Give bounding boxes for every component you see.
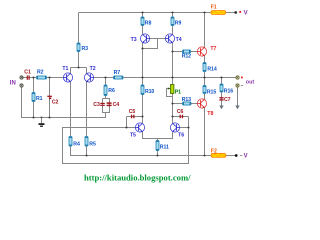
wire T3 T4 base link bbox=[150, 38, 166, 40]
out plus polarity mark bbox=[241, 77, 243, 79]
capacitor C5 bbox=[129, 109, 136, 118]
wire R8 leg bbox=[142, 13, 144, 35]
resistor R13 bbox=[182, 97, 191, 105]
wire ground rail bbox=[22, 87, 106, 118]
svg-text:F1: F1 bbox=[211, 5, 217, 11]
wire C6 branch bbox=[173, 116, 189, 118]
svg-text:R8: R8 bbox=[145, 20, 152, 26]
terminal out minus bbox=[236, 84, 239, 87]
wire C5 to T5 base bbox=[126, 117, 128, 128]
svg-text:C5: C5 bbox=[129, 109, 136, 115]
wire R11 leg bbox=[157, 139, 159, 156]
transistor T8 bbox=[197, 99, 213, 117]
wire T1 T2 collector tee bbox=[71, 67, 87, 69]
transistor T6 bbox=[170, 123, 184, 139]
wire T7 T8 output chain bbox=[204, 13, 206, 156]
resistor R8 bbox=[141, 17, 151, 26]
transistor T3 bbox=[131, 34, 150, 43]
svg-text:T4: T4 bbox=[176, 37, 182, 43]
wire input row bbox=[22, 77, 64, 79]
wire R16 C7 branch bbox=[221, 78, 223, 106]
terminal -V dot bbox=[235, 154, 238, 157]
wire T3 diode loop bbox=[143, 39, 158, 49]
svg-text:R16: R16 bbox=[224, 89, 233, 95]
transistor T5 bbox=[130, 123, 145, 139]
svg-text:R4: R4 bbox=[73, 142, 80, 148]
wire T4 collector chain bbox=[172, 43, 174, 123]
resistor R6 bbox=[104, 85, 115, 96]
resistor R3 bbox=[77, 43, 88, 52]
ground arrow below out minus bbox=[235, 106, 239, 110]
svg-text:R3: R3 bbox=[82, 46, 89, 52]
ground symbol bbox=[39, 118, 45, 127]
wire R13 to T8 base bbox=[173, 103, 198, 105]
wire T5 T6 emitter link bbox=[143, 132, 173, 139]
wire C3 C4 loop bbox=[103, 99, 110, 113]
svg-text:R11: R11 bbox=[160, 144, 169, 150]
resistor R4 bbox=[69, 137, 80, 148]
svg-text:P1: P1 bbox=[175, 89, 181, 95]
capacitor C1 bbox=[24, 70, 31, 80]
svg-text:F2: F2 bbox=[211, 148, 217, 154]
wire out minus ground leg bbox=[237, 87, 239, 106]
svg-text:R12: R12 bbox=[182, 54, 191, 60]
svg-text:C6: C6 bbox=[177, 109, 184, 115]
wire R5 leg bbox=[86, 146, 88, 156]
wire T4 to R12 to T7 base bbox=[173, 51, 198, 53]
wire C2 branch bbox=[49, 78, 51, 118]
wire R6 branch bbox=[105, 78, 107, 99]
transistor T7 bbox=[197, 46, 216, 56]
svg-text:R15: R15 bbox=[207, 90, 216, 96]
resistor R12 bbox=[182, 50, 191, 60]
fuse F2 bbox=[211, 148, 226, 157]
resistor R7 bbox=[114, 70, 124, 79]
svg-text:T3: T3 bbox=[131, 37, 137, 43]
wire R3 branch bbox=[78, 13, 80, 68]
svg-text:C7: C7 bbox=[224, 97, 231, 103]
svg-text:R9: R9 bbox=[175, 20, 182, 26]
svg-text:T7: T7 bbox=[210, 46, 216, 52]
capacitor C7 bbox=[219, 97, 230, 103]
capacitor C4 bbox=[107, 102, 120, 108]
wire -V bottom rail bbox=[71, 146, 237, 156]
svg-text:C4: C4 bbox=[113, 102, 120, 108]
svg-text:T1: T1 bbox=[62, 66, 68, 72]
resistor R16 bbox=[220, 84, 233, 95]
transistor T1 bbox=[62, 66, 72, 82]
svg-text:R6: R6 bbox=[108, 88, 115, 94]
terminal out plus bbox=[236, 76, 239, 79]
svg-text:R13: R13 bbox=[182, 97, 191, 103]
svg-text:C3: C3 bbox=[93, 102, 100, 108]
wire T2 base to output terminal bbox=[94, 77, 236, 79]
wire R1 branch bbox=[33, 78, 35, 118]
capacitor C2 bbox=[47, 96, 58, 105]
svg-text:V: V bbox=[244, 11, 248, 17]
wire P1 wiper loop bbox=[167, 89, 173, 97]
svg-text:T5: T5 bbox=[130, 133, 136, 139]
svg-text:T2: T2 bbox=[90, 66, 96, 72]
svg-text:C2: C2 bbox=[52, 100, 59, 106]
transistor T4 bbox=[165, 34, 181, 43]
svg-text:T6: T6 bbox=[178, 133, 184, 139]
resistor R2 bbox=[37, 69, 47, 79]
wire +V top rail bbox=[79, 12, 236, 14]
fuse F1 bbox=[211, 5, 226, 15]
wire C5 branch bbox=[127, 116, 143, 118]
resistor R11 bbox=[156, 141, 169, 151]
capacitor C3 bbox=[93, 102, 105, 108]
ground arrow below C7 bbox=[219, 106, 223, 110]
resistor R1 bbox=[32, 93, 43, 103]
resistor R15 bbox=[203, 86, 216, 96]
minus V polarity mark bbox=[240, 154, 242, 157]
wire T2 vertical bbox=[86, 68, 88, 137]
resistor R5 bbox=[85, 137, 96, 148]
svg-text:http://kitaudio.blogspot.com/: http://kitaudio.blogspot.com/ bbox=[84, 173, 191, 183]
plus V polarity mark bbox=[239, 11, 241, 13]
wire R9 leg bbox=[172, 13, 174, 35]
svg-text:R2: R2 bbox=[37, 69, 44, 75]
svg-text:R14: R14 bbox=[207, 66, 216, 72]
resistor R9 bbox=[171, 17, 181, 26]
svg-text:T8: T8 bbox=[207, 111, 213, 117]
svg-text:IN: IN bbox=[10, 81, 16, 87]
svg-text:out: out bbox=[246, 80, 255, 86]
svg-text:R7: R7 bbox=[114, 70, 121, 76]
wire T6 base bbox=[180, 127, 189, 129]
svg-text:R10: R10 bbox=[145, 89, 154, 95]
wire T1 vertical bbox=[70, 68, 72, 137]
terminal +V dot bbox=[234, 11, 237, 14]
out minus polarity mark bbox=[241, 84, 243, 87]
capacitor C6 bbox=[177, 109, 184, 118]
terminal IN plus bbox=[20, 76, 23, 79]
svg-text:C1: C1 bbox=[24, 70, 31, 76]
svg-text:R5: R5 bbox=[89, 142, 96, 148]
wire T3 collector chain bbox=[142, 43, 144, 123]
svg-text:R1: R1 bbox=[36, 96, 43, 102]
transistor T2 bbox=[84, 66, 95, 82]
resistor R14 bbox=[203, 63, 217, 73]
potentiometer P1 bbox=[168, 85, 181, 96]
terminal IN minus bbox=[20, 84, 23, 87]
svg-text:V: V bbox=[244, 154, 248, 160]
resistor R10 bbox=[141, 85, 154, 95]
wire T5 base feedback loop bbox=[63, 117, 189, 164]
